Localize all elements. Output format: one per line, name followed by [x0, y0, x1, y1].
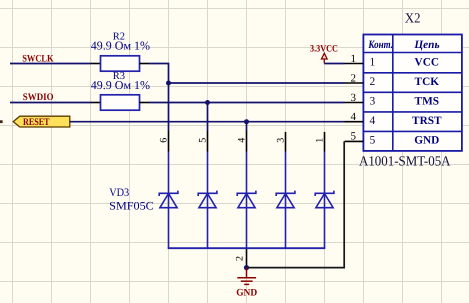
port RESET: [13, 116, 70, 127]
ground symbol: [237, 268, 256, 285]
connector X2 column separator: [392, 35, 394, 151]
diode D2 of VD3: [198, 152, 217, 249]
svg-text:1: 1: [370, 57, 376, 69]
svg-text:5: 5: [351, 131, 357, 143]
svg-text:GND: GND: [414, 135, 439, 147]
svg-text:SMF05C: SMF05C: [109, 200, 154, 212]
svg-text:4: 4: [237, 138, 248, 143]
power port 3.3VCC arrow symbol: [322, 53, 328, 63]
svg-text:2: 2: [351, 72, 357, 84]
svg-text:3: 3: [276, 138, 287, 143]
svg-text:Конт.: Конт.: [368, 39, 393, 51]
resistor R2 pin 2: [140, 63, 150, 65]
svg-text:GND: GND: [236, 288, 257, 299]
connector X2 pin 3: [345, 102, 364, 104]
svg-text:3: 3: [351, 92, 357, 104]
VD3 pin 4: [246, 131, 248, 152]
diode D4 of VD3: [276, 152, 295, 249]
svg-text:SWDIO: SWDIO: [23, 92, 54, 103]
svg-text:TCK: TCK: [415, 76, 440, 88]
connector X2 row lines: [363, 53, 462, 132]
svg-text:2: 2: [370, 76, 376, 88]
diode D1 of VD3: [159, 152, 178, 249]
svg-text:VD3: VD3: [109, 187, 129, 199]
svg-text:2: 2: [234, 256, 245, 261]
wire stub at left edge: [0, 120, 3, 123]
wire R3 output to connector pin 3: [149, 102, 345, 104]
wire node to connector pin 2: [169, 82, 345, 84]
VD3 pin 2: [246, 249, 248, 268]
wire RESET to connector pin 4: [70, 121, 345, 123]
svg-text:6: 6: [159, 138, 170, 143]
svg-text:1: 1: [315, 138, 326, 143]
svg-text:RESET: RESET: [23, 117, 50, 128]
wire GND junction to connector pin 5: [247, 141, 345, 267]
VD3 common rail: [168, 247, 326, 249]
wire SWDIO to R3: [10, 102, 91, 104]
svg-text:1: 1: [351, 53, 357, 65]
svg-text:VCC: VCC: [415, 57, 439, 69]
VD3 pin 3: [285, 132, 287, 152]
resistor R2 pin 1: [91, 63, 101, 65]
connector X2 pin 1: [345, 63, 364, 65]
svg-text:4: 4: [370, 115, 376, 127]
svg-text:49.9 Ом 1%: 49.9 Ом 1%: [91, 78, 150, 92]
wire R2 output to corner and down to node: [149, 64, 169, 84]
junction node GND: [244, 265, 249, 270]
svg-text:TRST: TRST: [412, 115, 442, 127]
VD3 pin 6: [168, 131, 170, 152]
svg-text:49.9 Ом 1%: 49.9 Ом 1%: [91, 39, 150, 53]
svg-text:5: 5: [370, 135, 376, 147]
resistor R3 pin 1: [91, 102, 101, 104]
wire node down to VD3 pin 5: [207, 103, 209, 132]
wire node down to VD3 pin 4: [246, 122, 248, 131]
svg-text:4: 4: [351, 111, 357, 123]
svg-text:TMS: TMS: [415, 96, 439, 108]
svg-text:3: 3: [370, 96, 376, 108]
junction node R2/TCK/diode pin 6: [166, 81, 171, 86]
wire node down to VD3 pin 6: [168, 83, 170, 131]
connector X2 pin 5: [345, 140, 364, 142]
wire 3.3VCC to connector pin 1: [324, 63, 344, 65]
diode D3 of VD3: [237, 152, 256, 249]
resistor R3 pin 2: [140, 102, 150, 104]
connector X2 pin 4: [345, 121, 364, 123]
resistor R2 body: [101, 56, 140, 71]
svg-text:A1001-SMT-05A: A1001-SMT-05A: [359, 155, 451, 170]
diode D5 of VD3: [315, 152, 334, 249]
junction node R3/TMS/diode pin 5: [205, 100, 210, 105]
VD3 pin 1: [324, 132, 326, 152]
junction node RESET/TRST/diode pin 4: [244, 119, 249, 124]
VD3 pin 5: [207, 131, 209, 152]
connector X2 body: [363, 35, 462, 151]
svg-text:X2: X2: [405, 12, 421, 27]
connector X2 pin 2: [345, 82, 364, 84]
resistor R3 body: [101, 95, 140, 110]
svg-text:Цепь: Цепь: [413, 39, 439, 51]
wire SWCLK to R2: [10, 63, 91, 65]
svg-text:5: 5: [198, 138, 209, 143]
